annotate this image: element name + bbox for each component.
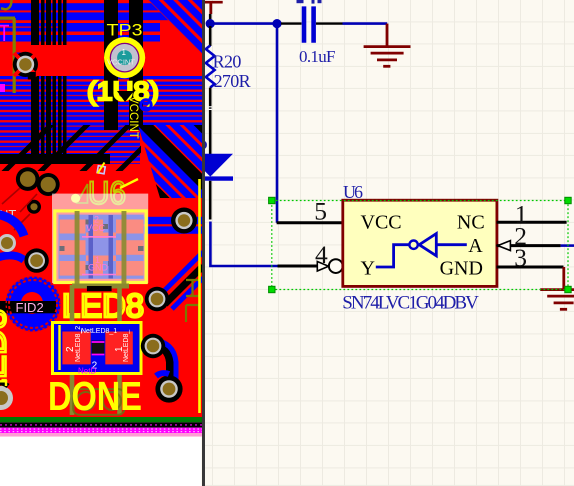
wire diode to pin4 (blue L) — [210, 222, 277, 267]
pads H I J with diagonal traces — [141, 252, 203, 403]
junction node J1 — [206, 19, 215, 28]
U6 footprint pads — [60, 220, 144, 276]
LED pads — [62, 332, 90, 365]
pad A with thermal relief — [13, 52, 38, 80]
svg-text:3: 3 — [514, 243, 527, 272]
diode bottom lead (black) — [209, 181, 212, 220]
svg-text:0.1uF: 0.1uF — [299, 47, 336, 66]
svg-text:LED8: LED8 — [62, 287, 144, 324]
svg-text:U6: U6 — [343, 182, 363, 202]
ground GND2 (dark red) bottom right — [540, 267, 574, 309]
U6 footprint inner field — [59, 215, 144, 279]
wire J1 to J2 — [210, 22, 277, 25]
capacitor C17 right pin (black) — [316, 22, 343, 24]
svg-text:TP3: TP3 — [107, 21, 143, 40]
U6 pin 5 (VCC) black — [277, 221, 343, 224]
olive vertical bar top-left — [1, 0, 12, 9]
blue fragment near pad A — [15, 53, 21, 59]
capacitor C17 plates — [304, 6, 314, 42]
U6 pin 2 (A) black with input triangle — [497, 244, 561, 247]
olive ghost outline behind DONE — [73, 389, 124, 415]
PCB copper background — [0, 0, 203, 417]
LED center hatch — [92, 341, 105, 356]
olive K1 glyphs right edge — [186, 280, 199, 322]
U6 body — [343, 200, 497, 286]
svg-text:FID2: FID2 — [16, 300, 44, 315]
U6 footprint body lines olive — [75, 211, 80, 288]
U6 footprint pink texts — [86, 215, 109, 273]
U6 pin 4 (Y) black with bubble — [278, 265, 321, 268]
wire from pin2 to sheet edge (blue) — [561, 244, 574, 247]
svg-text:1: 1 — [122, 48, 127, 57]
pane divider — [202, 0, 205, 486]
svg-text:SN74LVC1G04DBV: SN74LVC1G04DBV — [342, 293, 479, 314]
lower trace band stack — [0, 76, 203, 130]
svg-text:R20: R20 — [213, 52, 242, 72]
U6 footprint courtyard — [55, 211, 146, 283]
no-ERC marker dashes — [209, 107, 212, 110]
U6 footprint highlight mask — [52, 194, 148, 283]
white via diamond mark — [97, 166, 105, 174]
svg-text:DONE: DONE — [48, 373, 142, 419]
blue via ring — [141, 100, 151, 110]
LED white texts — [65, 326, 130, 372]
resistor R20 top lead (black) — [209, 26, 212, 46]
pad K clipped left bottom — [0, 386, 13, 410]
top horizontal traces — [0, 3, 203, 10]
svg-text:NetLED8_: NetLED8_ — [123, 330, 130, 362]
schematic sheet background with grid — [204, 0, 574, 486]
power port VCC bar (dark red) top left — [205, 2, 223, 21]
pad F — [24, 248, 48, 272]
capacitor C17 left pin (black) — [281, 22, 302, 24]
black antipad bars top-left — [31, 0, 143, 164]
wire cap to ground — [343, 22, 388, 25]
U6 footprint blue trace bars — [89, 215, 94, 279]
black diagonal traces woven in bands — [0, 106, 184, 186]
svg-text:VCCINT: VCCINT — [127, 96, 139, 139]
yellow corner bracket top-left bottom zone — [0, 381, 7, 386]
svg-text:VCC: VCC — [86, 223, 106, 233]
U6 pin 3 (GND) black — [497, 266, 564, 269]
resistor R20 zigzag body — [206, 46, 215, 88]
wire J2 down to pin5 — [276, 24, 279, 223]
inverter bubble — [409, 241, 417, 249]
blue arc traces left — [0, 214, 24, 236]
small yellow diagonal mark — [98, 163, 105, 174]
U6 pin 1 (NC) black — [497, 221, 567, 224]
black via under text — [117, 91, 134, 102]
svg-text:A: A — [468, 235, 483, 257]
black antipad behind LED8 text — [87, 286, 112, 291]
mid-right diagonal wedge — [138, 125, 203, 198]
LED footprint outline — [53, 323, 142, 374]
svg-text:270R: 270R — [214, 71, 251, 91]
capacitor designator C17 clipped at top — [297, 0, 322, 4]
svg-text:NetLED8_1: NetLED8_1 — [81, 328, 117, 335]
pad G — [171, 208, 197, 234]
top-right diagonal traces wedge — [148, 0, 203, 55]
ground GND1 (dark red) — [364, 24, 411, 67]
partial net-label glyph at pane edge — [204, 142, 206, 149]
magenta flecks left edge — [0, 26, 9, 41]
inverter glyph inside U6 — [376, 234, 467, 267]
svg-text:NC: NC — [457, 212, 485, 234]
pad E — [0, 234, 16, 252]
junction node J2 — [272, 19, 281, 28]
U6 selection box dashed green — [272, 201, 568, 290]
svg-text:GND: GND — [88, 263, 109, 273]
olive body bars through LED footprint — [70, 285, 75, 415]
test point TP3 pad — [104, 37, 145, 78]
svg-text:GND: GND — [440, 258, 483, 280]
right side horizontal bands near pad G — [140, 217, 203, 224]
board edge yellow line right — [198, 179, 201, 413]
resistor R20 bottom lead (black) — [209, 88, 212, 155]
selection handles green — [269, 197, 572, 292]
U6 silkscreen text and marker — [71, 175, 138, 211]
svg-text:4: 4 — [315, 240, 328, 269]
svg-text:VCC: VCC — [361, 212, 402, 234]
pads B C D cluster — [16, 167, 60, 214]
svg-text:NetLED8_2: NetLED8_2 — [75, 326, 82, 362]
svg-text:Y: Y — [361, 258, 375, 280]
dark red trace outlines — [2, 188, 37, 230]
FID2 fiducial — [0, 277, 61, 332]
board bottom stripes — [0, 417, 203, 422]
diode D (blue, half hidden by pane) — [188, 154, 234, 179]
svg-text:VCCINT: VCCINT — [107, 58, 135, 67]
black band in stack — [0, 154, 110, 164]
